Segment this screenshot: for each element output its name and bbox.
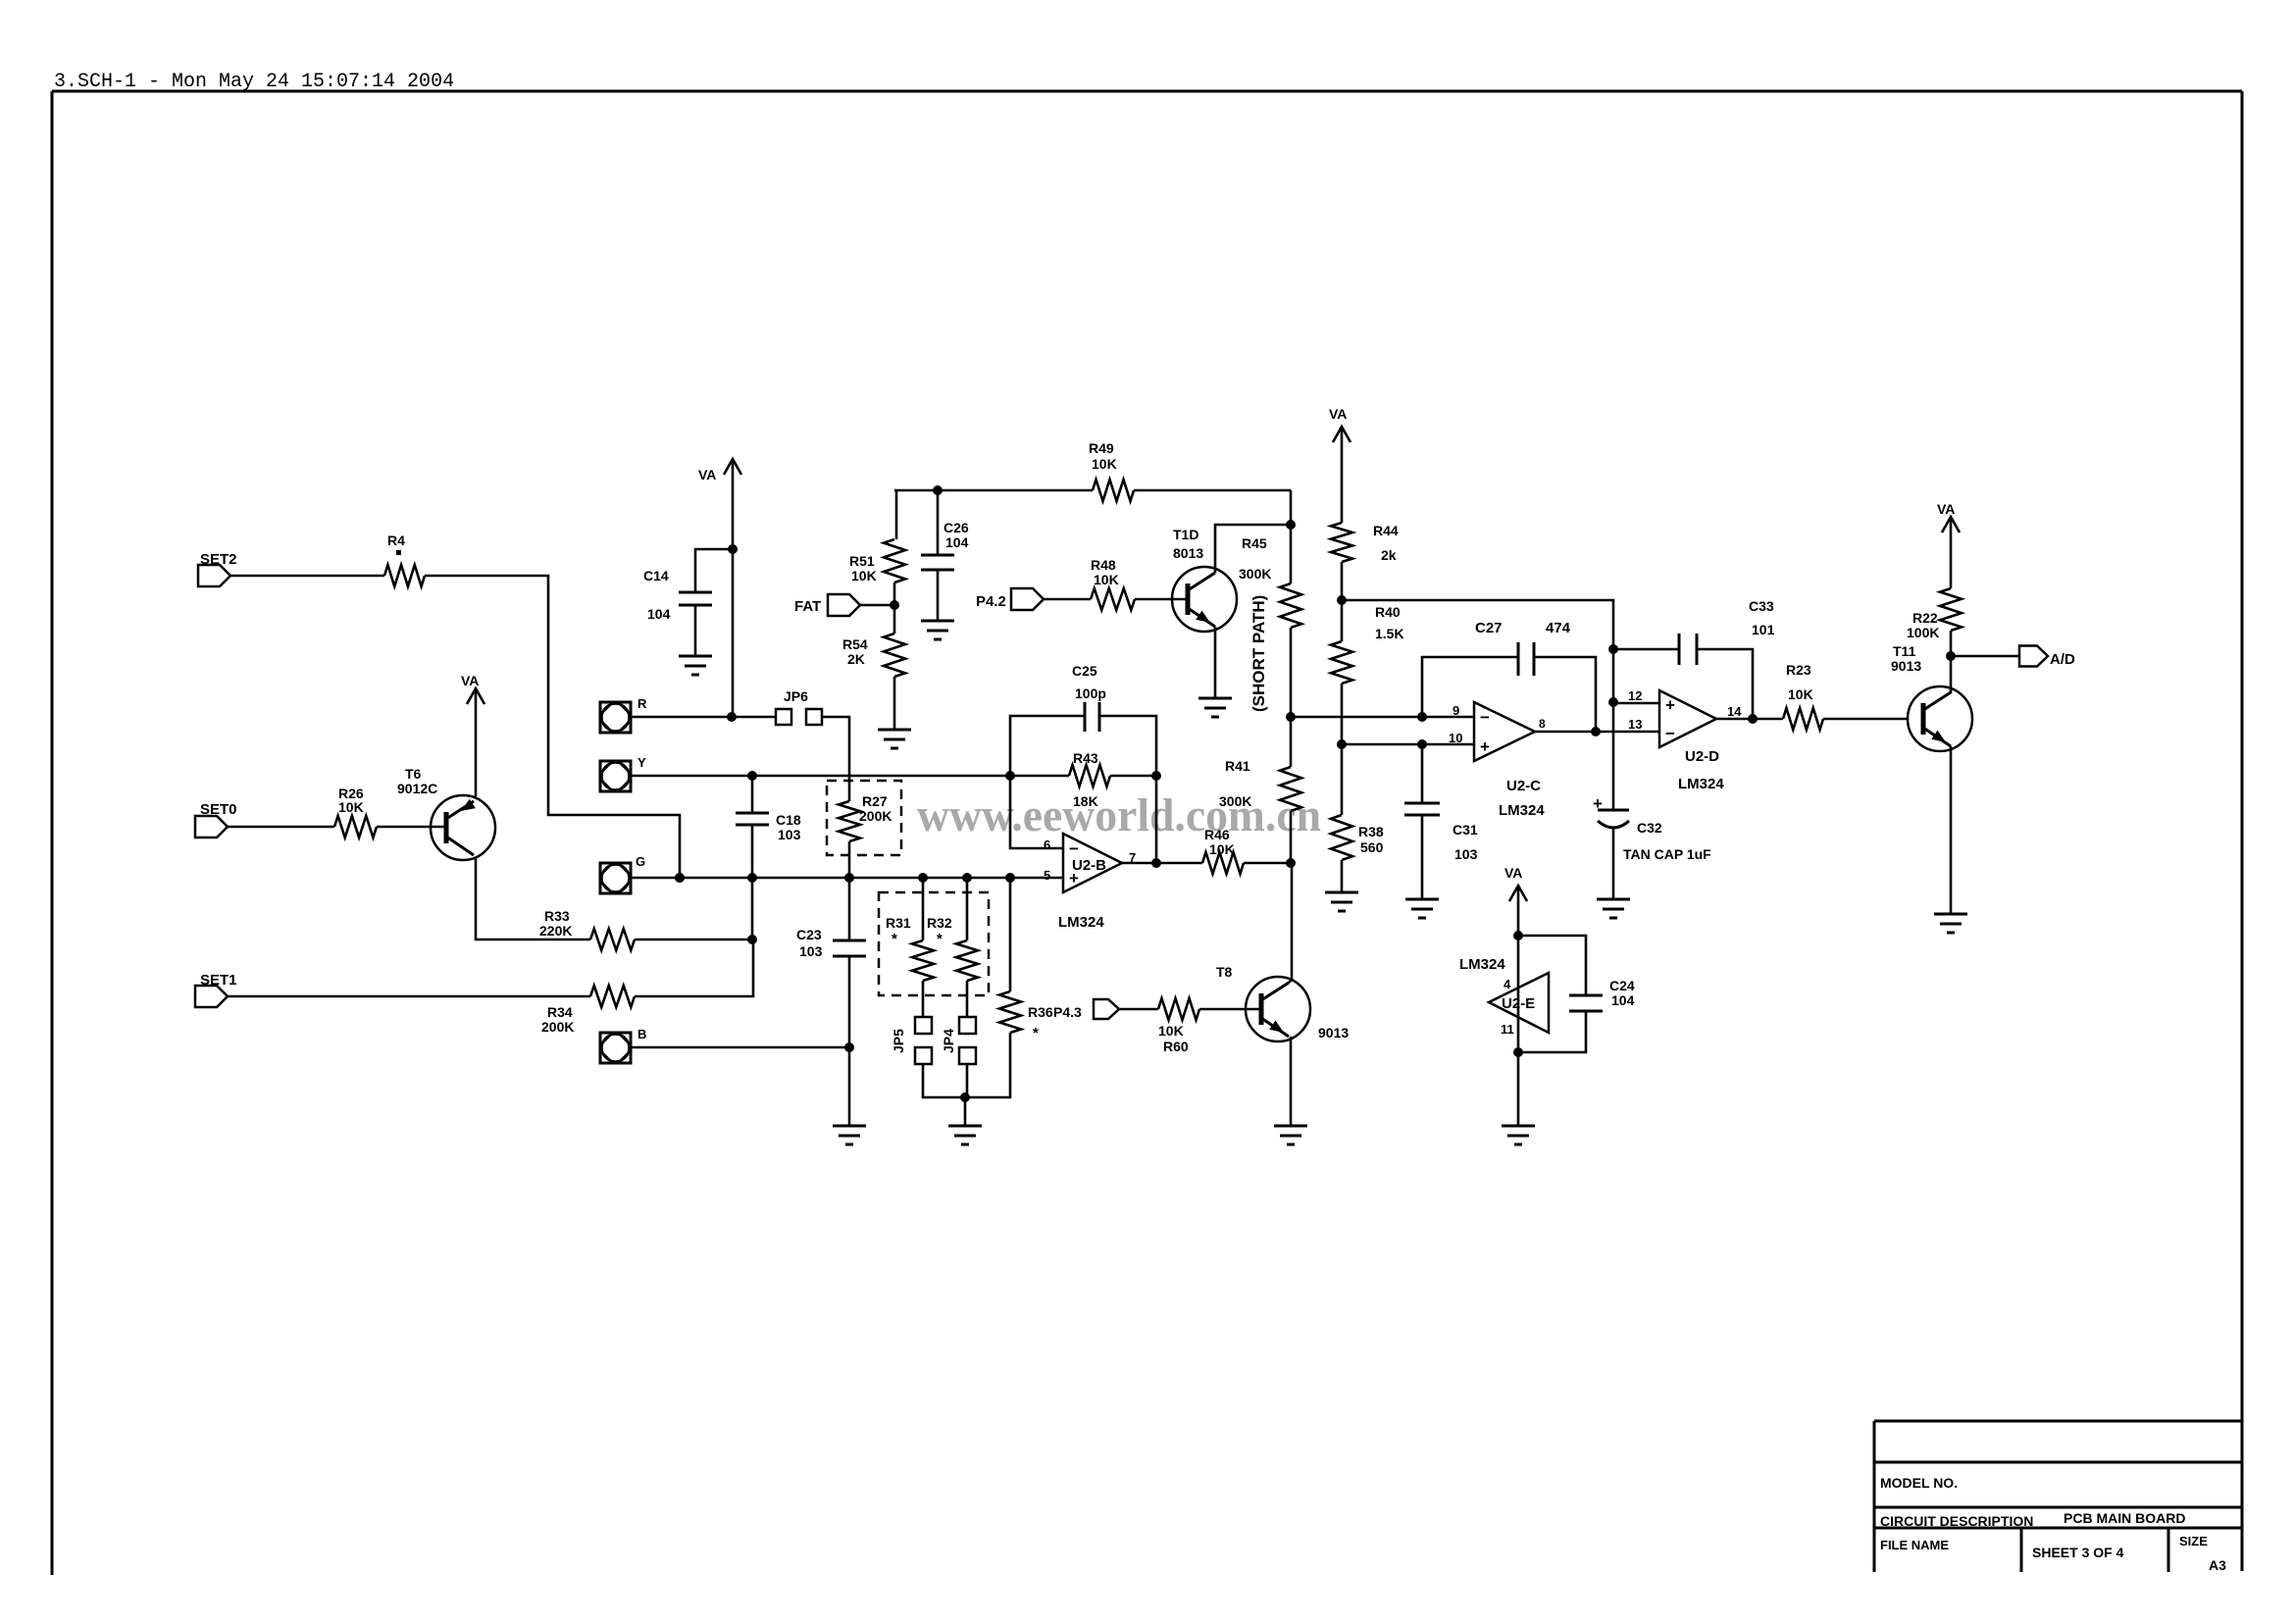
- ground (C31): [1405, 899, 1439, 918]
- jumper JP6 label: [784, 688, 808, 704]
- node junction VA/C24 top: [1513, 931, 1523, 940]
- node junction R4/G-line: [675, 873, 685, 883]
- resistor R60 label: [1158, 1023, 1189, 1054]
- op-amp U2-C: [1474, 702, 1541, 794]
- wire R36 to ground node: [965, 1033, 1010, 1097]
- svg-text:LM324: LM324: [1058, 914, 1104, 931]
- node junction G/R27-C23: [844, 873, 854, 883]
- op-amp U2-D pin 14 label: [1727, 704, 1742, 719]
- resistor R36 label: [1028, 1004, 1053, 1041]
- net flag A/D: [2019, 646, 2048, 667]
- resistor R48 label: [1091, 557, 1119, 587]
- svg-text:VA: VA: [461, 673, 479, 688]
- svg-text:R40: R40: [1375, 604, 1401, 620]
- ground (T8): [1274, 1126, 1307, 1144]
- svg-text:JP6: JP6: [784, 688, 808, 704]
- svg-text:200K: 200K: [859, 808, 892, 824]
- sheet border right: [2241, 91, 2244, 1571]
- svg-text:VA: VA: [1329, 406, 1347, 422]
- wire pin6 stub: [1010, 776, 1063, 848]
- svg-text:TAN CAP 1uF: TAN CAP 1uF: [1623, 846, 1711, 862]
- svg-text:103: 103: [778, 827, 801, 842]
- wire R26 to T6 base: [377, 826, 444, 829]
- wire R33 to vertical: [635, 939, 752, 941]
- net flag SET2: [198, 565, 230, 586]
- title block A3 label: [2209, 1557, 2226, 1573]
- port B: [600, 1033, 631, 1063]
- transistor T8 (NPN 9013): [1246, 977, 1310, 1041]
- wire VA down to R line: [732, 459, 735, 717]
- svg-text:220K: 220K: [539, 923, 572, 939]
- capacitor C25: [1085, 702, 1099, 732]
- op-amp U2-E pin 4 label: [1504, 977, 1511, 991]
- resistor R38 label: [1358, 824, 1384, 855]
- wire R34 up to R33 node: [635, 939, 753, 996]
- svg-text:P4.3: P4.3: [1053, 1004, 1082, 1020]
- node junction pin9/C27: [1417, 712, 1427, 722]
- jumper JP5: [915, 1017, 932, 1064]
- resistor R34 label: [541, 1004, 574, 1035]
- svg-text:103: 103: [799, 943, 823, 959]
- ground (JP5/JP4/R36): [948, 1126, 982, 1144]
- resistor R45: [1280, 584, 1301, 628]
- resistor R43 label: [1073, 750, 1098, 766]
- transistor T11 (NPN 9013): [1908, 686, 1972, 751]
- wire C26 stub: [937, 490, 940, 555]
- svg-text:6: 6: [1044, 837, 1050, 852]
- resistor R22 value label: [1907, 625, 1939, 640]
- svg-text:R33: R33: [544, 908, 570, 924]
- capacitor C31 label: [1453, 822, 1478, 862]
- wire C27 left: [1422, 657, 1518, 717]
- wire R46 to T8 node: [1244, 862, 1291, 865]
- svg-text:PCB MAIN BOARD: PCB MAIN BOARD: [2064, 1510, 2185, 1526]
- wire rail corner down: [894, 490, 896, 539]
- svg-text:T8: T8: [1216, 964, 1233, 980]
- wire C31 to ground: [1421, 815, 1424, 899]
- svg-text:10K: 10K: [1094, 572, 1119, 587]
- capacitor C27 label: [1475, 620, 1503, 636]
- resistor R48: [1091, 588, 1135, 610]
- ground (R38): [1325, 892, 1358, 911]
- power VA arrow (T6): [461, 673, 484, 704]
- svg-text:−: −: [1665, 725, 1675, 743]
- svg-text:9012C: 9012C: [397, 781, 437, 796]
- title block line 4: [1874, 1527, 2242, 1530]
- wire G to R31: [922, 878, 925, 940]
- title block SHEET 3 OF 4 label: [2032, 1545, 2124, 1560]
- svg-text:R31: R31: [886, 915, 911, 931]
- svg-text:101: 101: [1752, 622, 1775, 637]
- resistor R60: [1158, 998, 1199, 1020]
- svg-text:5: 5: [1044, 868, 1050, 883]
- node junction pin12 branch: [1608, 697, 1618, 707]
- resistor R49: [1093, 480, 1134, 501]
- resistor R36: [999, 991, 1021, 1033]
- svg-text:R54: R54: [842, 636, 868, 652]
- op-amp U2-E pin 11 label: [1501, 1022, 1514, 1037]
- svg-text:*: *: [1033, 1025, 1039, 1041]
- wire U2-B output: [1122, 862, 1202, 865]
- node SET1 label: [200, 972, 237, 989]
- title block CIRCUIT DESCRIPTION label: [1880, 1513, 2033, 1529]
- capacitor C26 label: [943, 520, 969, 550]
- svg-text:11: 11: [1501, 1022, 1514, 1037]
- capacitor C32 value label: [1623, 846, 1711, 862]
- node junction R46/R41/T8: [1286, 858, 1296, 868]
- wire R41 to R46 node: [1290, 811, 1293, 863]
- wire C18 to R33 node: [751, 825, 754, 939]
- wire G to C23: [848, 878, 851, 940]
- port B label: [637, 1027, 646, 1041]
- wire G to R36: [1009, 878, 1012, 991]
- node junction R49/T1D collector: [1286, 520, 1296, 530]
- resistor R34: [590, 986, 635, 1007]
- svg-text:18K: 18K: [1073, 793, 1098, 809]
- svg-text:8013: 8013: [1173, 545, 1203, 561]
- wire R22 to VA: [1950, 517, 1953, 588]
- resistor R27 label: [859, 793, 892, 824]
- node junction G/R31: [918, 873, 928, 883]
- svg-text:(SHORT PATH): (SHORT PATH): [1249, 595, 1268, 712]
- node junction B/C23: [844, 1042, 854, 1052]
- svg-text:LM324: LM324: [1678, 776, 1724, 792]
- wire VA to U2-E: [1517, 886, 1520, 1126]
- wire C27 right: [1534, 657, 1596, 732]
- power VA arrow (U2-E): [1504, 865, 1527, 901]
- wire JP5 to ground node: [923, 1064, 965, 1097]
- watermark www.eeworld.com.cn: [917, 789, 1321, 841]
- wire C24 bottom: [1518, 1011, 1586, 1052]
- wire R54 to ground: [893, 677, 896, 730]
- svg-text:R48: R48: [1091, 557, 1116, 573]
- svg-text:−: −: [1069, 839, 1079, 858]
- svg-text:C25: C25: [1072, 663, 1097, 679]
- svg-text:R32: R32: [927, 915, 952, 931]
- svg-text:300K: 300K: [1239, 566, 1271, 582]
- resistor R41: [1280, 767, 1301, 811]
- svg-text:2k: 2k: [1381, 547, 1397, 563]
- port Y: [600, 761, 631, 791]
- wire C33 right stub: [1697, 649, 1753, 719]
- svg-text:10K: 10K: [1158, 1023, 1184, 1039]
- svg-text:Y: Y: [637, 755, 646, 770]
- wire T1D node to R45: [1290, 525, 1293, 584]
- resistor R44 label: [1373, 523, 1399, 563]
- resistor R4 label: [387, 533, 405, 555]
- port Y label: [637, 755, 646, 770]
- wire T1D emitter down: [1214, 627, 1217, 698]
- resistor R32: [956, 940, 978, 981]
- resistor R43: [1069, 765, 1110, 787]
- resistor R32 label: [927, 915, 952, 947]
- ground (C26): [921, 621, 954, 639]
- capacitor C14 label: [643, 568, 671, 622]
- wire U2-D output to R23: [1716, 718, 1783, 721]
- svg-text:R: R: [637, 696, 647, 711]
- capacitor C33: [1679, 634, 1697, 665]
- wire VA to R44: [1341, 427, 1344, 523]
- svg-text:200K: 200K: [541, 1019, 574, 1035]
- svg-text:FAT: FAT: [794, 598, 821, 615]
- svg-text:9013: 9013: [1318, 1025, 1349, 1040]
- wire collector to R22: [1950, 631, 1953, 656]
- wire T1D collector up: [1215, 525, 1291, 573]
- op-amp U2-C pin 8 label: [1539, 717, 1546, 731]
- node junction FAT/R51/R54: [890, 600, 899, 610]
- op-amp U2-E LM324 label: [1459, 956, 1505, 973]
- svg-text:FILE NAME: FILE NAME: [1880, 1538, 1949, 1552]
- resistor R54 label: [842, 636, 868, 667]
- resistor R31: [912, 940, 934, 981]
- resistor R22: [1940, 588, 1962, 631]
- resistor R27: [839, 801, 860, 841]
- node junction C24 bottom: [1513, 1047, 1523, 1057]
- svg-text:VA: VA: [698, 467, 716, 482]
- wire rail to T1D node: [1290, 490, 1293, 525]
- svg-text:T1D: T1D: [1173, 527, 1198, 542]
- svg-text:8: 8: [1539, 717, 1546, 731]
- wire C25 right: [1099, 716, 1156, 776]
- svg-text:R34: R34: [547, 1004, 573, 1020]
- wire P4.3 to R60: [1119, 1008, 1158, 1011]
- dashed box around R31 R32: [879, 892, 989, 995]
- svg-text:T11: T11: [1893, 643, 1916, 659]
- node SET2 label: [200, 551, 237, 568]
- wire to A/D flag: [1951, 655, 2019, 658]
- svg-text:R38: R38: [1358, 824, 1384, 839]
- wire R40 node: [1341, 600, 1344, 641]
- svg-text:R46: R46: [1204, 827, 1230, 842]
- net flag FAT label: [794, 598, 821, 615]
- svg-text:SIZE: SIZE: [2179, 1534, 2208, 1548]
- svg-text:104: 104: [945, 534, 969, 550]
- svg-text:C14: C14: [643, 568, 669, 584]
- resistor R22 label: [1912, 610, 1938, 626]
- svg-text:9013: 9013: [1891, 658, 1921, 674]
- wire top rail right: [1134, 489, 1291, 492]
- node junction output/R43 right: [1151, 858, 1161, 868]
- svg-text:+: +: [1665, 696, 1675, 715]
- svg-text:LM324: LM324: [1459, 956, 1505, 973]
- port G label: [636, 854, 645, 869]
- svg-text:U2-E: U2-E: [1502, 995, 1535, 1012]
- port R label: [637, 696, 647, 711]
- capacitor C33 label: [1749, 598, 1775, 637]
- node junction collector/AD: [1946, 651, 1956, 661]
- svg-text:4: 4: [1504, 977, 1511, 991]
- svg-text:C33: C33: [1749, 598, 1774, 614]
- wire R60 to T8 base: [1199, 1008, 1261, 1011]
- resistor R46 label: [1204, 827, 1235, 857]
- svg-text:103: 103: [1454, 846, 1478, 862]
- wire B line: [631, 1046, 849, 1049]
- wire pin10 to C31: [1421, 744, 1424, 803]
- wire R48 to T1D base: [1135, 598, 1187, 601]
- svg-text:C23: C23: [796, 927, 822, 942]
- svg-text:www.eeworld.com.cn: www.eeworld.com.cn: [917, 789, 1321, 841]
- net flag P4.3 label: [1053, 1004, 1082, 1020]
- resistor R51 label: [849, 553, 877, 584]
- resistor R40 label: [1375, 604, 1404, 641]
- dashed box around R27: [827, 781, 901, 855]
- ground (C32): [1597, 899, 1630, 918]
- node junction Y/C18: [747, 771, 757, 781]
- resistor R40: [1331, 641, 1352, 684]
- svg-text:*: *: [937, 931, 943, 947]
- wire R40 to pin10 node: [1341, 684, 1344, 744]
- op-amp U2-B pin 5 label: [1044, 868, 1050, 883]
- net flag SET0: [195, 816, 228, 837]
- power VA arrow (top-left): [698, 459, 741, 482]
- op-amp U2-D LM324 label: [1678, 776, 1724, 792]
- wire T8 collector up: [1289, 863, 1292, 983]
- svg-text:9: 9: [1453, 703, 1459, 718]
- svg-text:JP4: JP4: [941, 1029, 956, 1053]
- wire T11 collector up: [1950, 656, 1953, 693]
- title block SIZE label: [2179, 1534, 2208, 1548]
- resistor R51: [884, 539, 905, 583]
- wire Y line: [631, 775, 1069, 778]
- svg-text:U2-B: U2-B: [1072, 857, 1106, 874]
- svg-text:C18: C18: [776, 812, 801, 828]
- title block FILE NAME label: [1880, 1538, 1949, 1552]
- wire SET1 to R34: [228, 995, 590, 998]
- svg-text:C26: C26: [943, 520, 969, 535]
- net flag P4.3: [1094, 999, 1119, 1019]
- title block MODEL NO. label: [1880, 1475, 1958, 1491]
- ground (T1D): [1198, 698, 1232, 717]
- svg-text:12: 12: [1628, 688, 1642, 703]
- svg-text:10K: 10K: [1788, 686, 1813, 702]
- svg-text:CIRCUIT DESCRIPTION: CIRCUIT DESCRIPTION: [1880, 1513, 2033, 1529]
- op-amp U2-D pin 12 label: [1628, 688, 1642, 703]
- svg-text:300K: 300K: [1219, 793, 1251, 809]
- svg-text:R60: R60: [1163, 1039, 1189, 1054]
- svg-text:C31: C31: [1453, 822, 1478, 837]
- svg-text:*: *: [892, 931, 897, 947]
- sheet border top: [52, 90, 2242, 93]
- op-amp U2-B pin 6 label: [1044, 837, 1050, 852]
- svg-text:10K: 10K: [1092, 456, 1117, 472]
- svg-text:474: 474: [1546, 620, 1571, 636]
- node junction rail/C26: [933, 485, 943, 495]
- title block divider sheet/size: [2167, 1528, 2170, 1572]
- svg-text:100K: 100K: [1907, 625, 1939, 640]
- svg-text:1.5K: 1.5K: [1375, 626, 1404, 641]
- svg-text:104: 104: [1611, 992, 1635, 1008]
- svg-text:14: 14: [1727, 704, 1742, 719]
- title block left edge: [1873, 1421, 1876, 1572]
- svg-text:R27: R27: [862, 793, 888, 809]
- wire pin10 node to R38: [1341, 744, 1344, 815]
- svg-text:−: −: [1480, 708, 1490, 727]
- transistor T11 label: [1891, 643, 1921, 674]
- node junction G/C18: [747, 873, 757, 883]
- wire JP6 down to R27: [822, 717, 849, 801]
- node junction C33 branch: [1608, 644, 1618, 654]
- op-amp U2-B LM324 label: [1058, 914, 1104, 931]
- capacitor C26: [921, 555, 954, 570]
- resistor R4: [384, 565, 425, 586]
- op-amp U2-B: [1063, 834, 1122, 892]
- svg-text:U2-C: U2-C: [1506, 778, 1541, 794]
- title block top line: [1874, 1420, 2242, 1423]
- capacitor C27: [1518, 642, 1534, 676]
- ground (C14): [679, 656, 712, 675]
- svg-text:13: 13: [1628, 717, 1642, 732]
- wire C32 to ground: [1612, 829, 1615, 899]
- wire R27 to G line: [848, 841, 851, 878]
- resistor R23: [1783, 708, 1823, 730]
- svg-text:U2-D: U2-D: [1685, 748, 1719, 765]
- capacitor C18: [736, 813, 769, 825]
- svg-text:C32: C32: [1637, 820, 1662, 836]
- svg-text:A/D: A/D: [2050, 651, 2075, 668]
- svg-text:+: +: [1480, 737, 1490, 756]
- node junction R45/pin9: [1286, 712, 1296, 722]
- wire T8 emitter down: [1290, 1037, 1293, 1126]
- node junction R43/C25 right: [1151, 771, 1161, 781]
- wire R40 node to C32/C33 node: [1342, 600, 1613, 649]
- capacitor C32 plus label: [1593, 794, 1603, 813]
- node junction VA/C14: [728, 544, 738, 554]
- wire C33/pin12/C32 vertical: [1612, 649, 1615, 810]
- transistor T6 label: [397, 766, 437, 796]
- wire U2-C output to U2-D pin13: [1535, 731, 1659, 734]
- svg-text:R45: R45: [1242, 535, 1267, 551]
- svg-text:SHEET 3 OF 4: SHEET 3 OF 4: [2032, 1545, 2124, 1560]
- net flag A/D label: [2050, 651, 2075, 668]
- transistor T8 label: [1216, 964, 1233, 980]
- resistor R26 label: [338, 786, 364, 815]
- capacitor C14: [679, 592, 712, 605]
- resistor R31 label: [886, 915, 911, 947]
- jumper JP4: [959, 1017, 976, 1064]
- jumper JP5 label: [891, 1029, 906, 1053]
- capacitor C24 label: [1609, 978, 1635, 1008]
- ground (R54): [878, 730, 911, 748]
- node junction C27/output: [1591, 727, 1601, 736]
- transistor T6 (PNP 9012C): [431, 795, 495, 860]
- resistor R49 label: [1089, 440, 1117, 472]
- svg-text:10K: 10K: [851, 568, 877, 584]
- svg-text:JP5: JP5: [891, 1029, 906, 1053]
- resistor R33 label: [539, 908, 572, 939]
- wire FAT to divider: [860, 604, 894, 607]
- wire T6 collector down: [476, 858, 590, 939]
- svg-text:10K: 10K: [338, 799, 364, 815]
- wire P4.2 to R48: [1044, 598, 1091, 601]
- svg-text:2K: 2K: [847, 651, 865, 667]
- wire top rail: [896, 489, 1093, 492]
- wire C23 to ground: [848, 956, 851, 1126]
- svg-text:R23: R23: [1786, 662, 1811, 678]
- wire R51 to FAT node: [893, 583, 896, 634]
- net flag P4.2 label: [976, 593, 1006, 610]
- svg-text:T6: T6: [405, 766, 422, 782]
- svg-text:P4.2: P4.2: [976, 593, 1006, 610]
- transistor T8 value label: [1318, 1025, 1349, 1040]
- power VA arrow (R22): [1937, 501, 1960, 533]
- wire JP4 to ground node: [966, 1064, 969, 1097]
- wire T11 emitter down: [1950, 746, 1953, 914]
- svg-text:10K: 10K: [1209, 841, 1235, 857]
- capacitor C27 value label: [1546, 620, 1571, 636]
- wire pin9 node to R41: [1290, 717, 1293, 767]
- port R: [600, 702, 631, 733]
- node junction Y/C25 left: [1005, 771, 1015, 781]
